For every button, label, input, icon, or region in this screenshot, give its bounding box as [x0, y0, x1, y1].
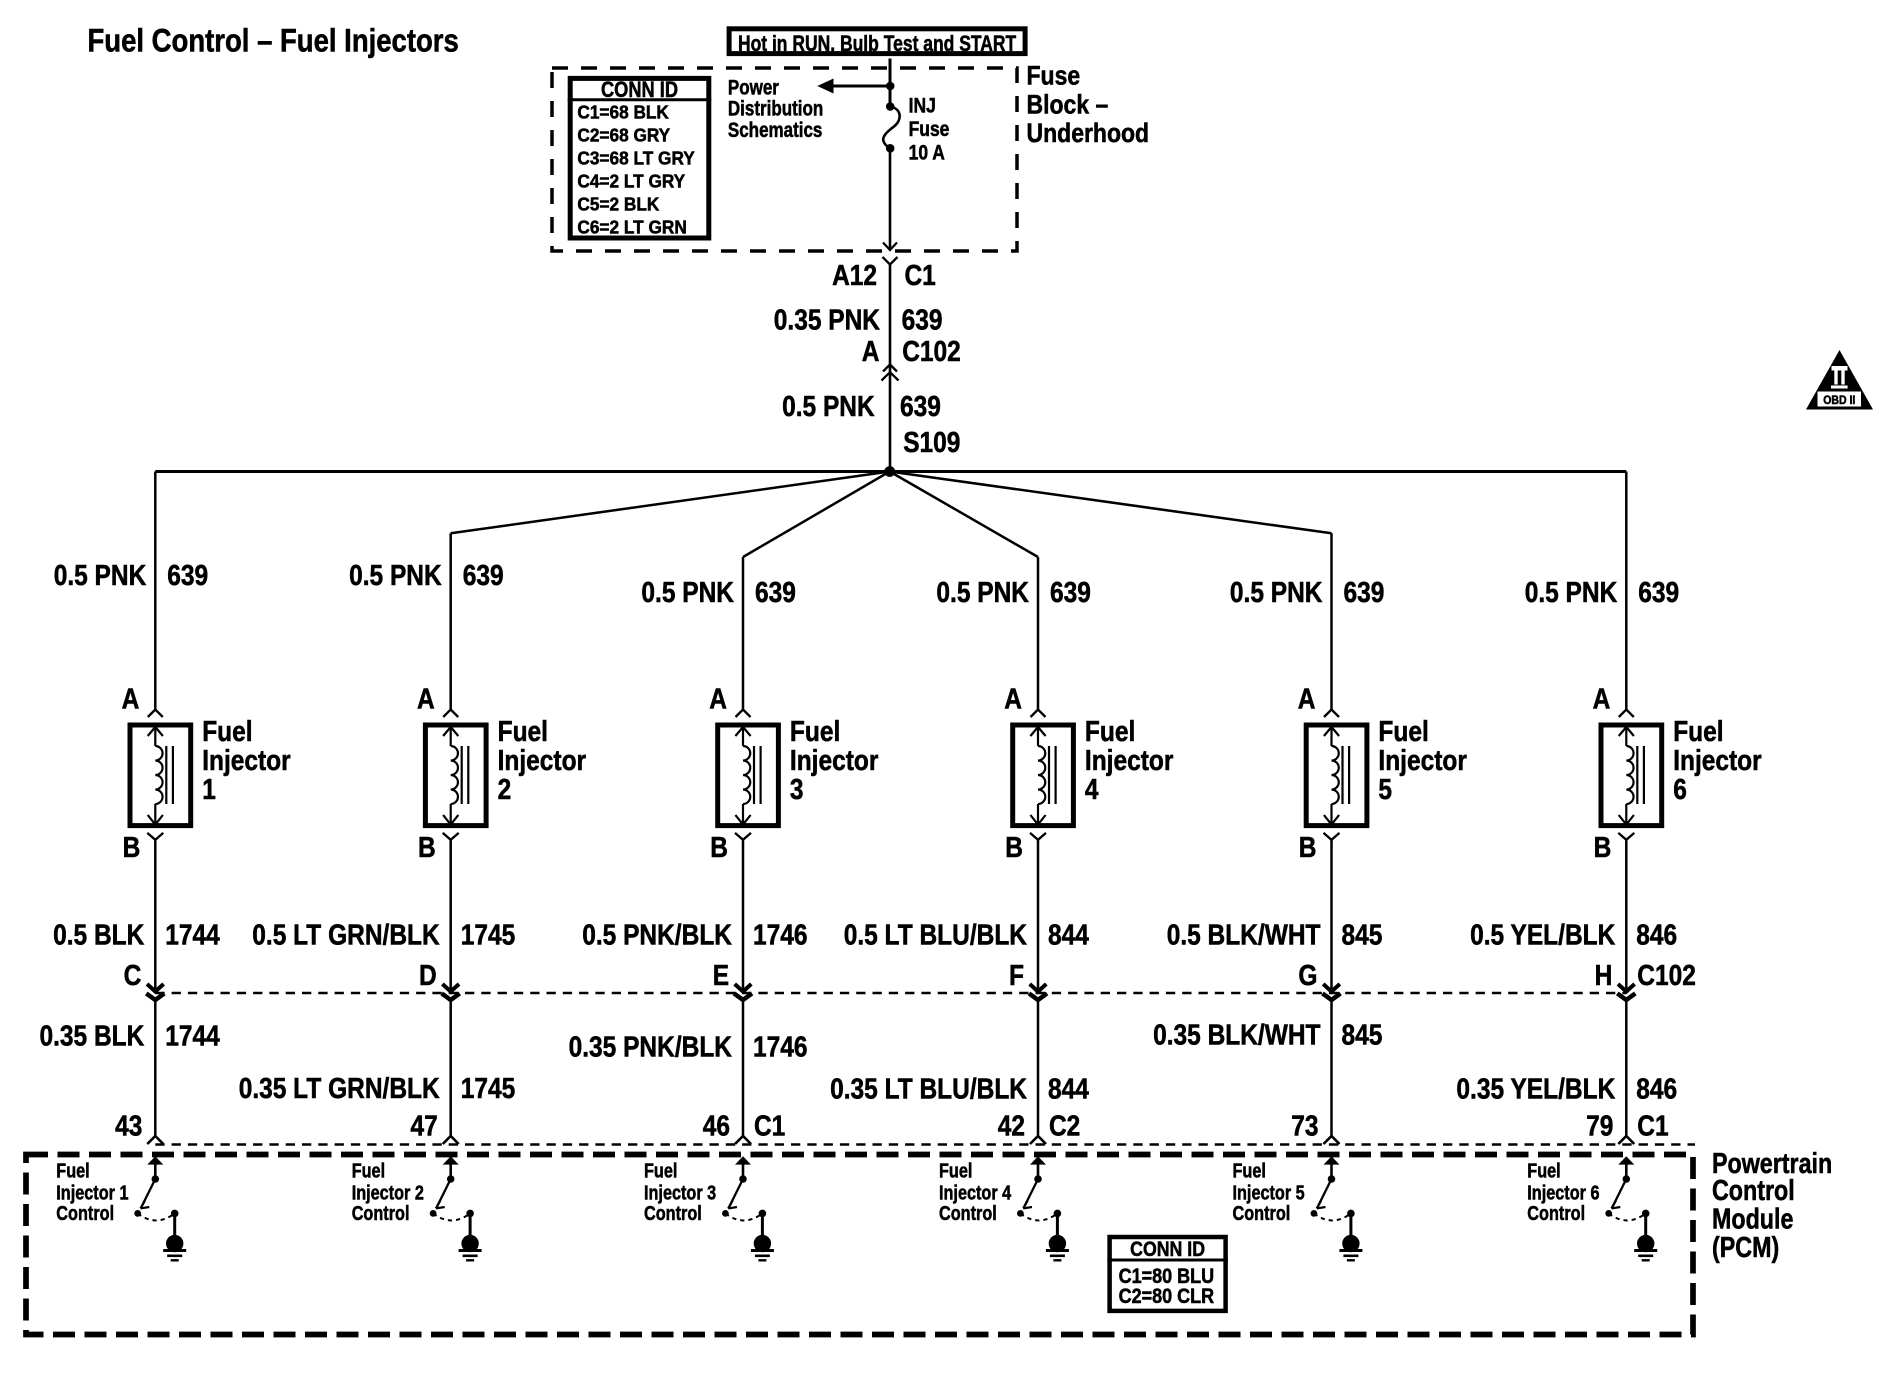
svg-text:G: G: [1298, 960, 1317, 992]
svg-text:E: E: [713, 960, 729, 992]
svg-text:639: 639: [1050, 577, 1091, 609]
svg-text:C: C: [124, 960, 142, 992]
svg-text:C1: C1: [754, 1110, 785, 1142]
svg-text:43: 43: [115, 1110, 142, 1142]
svg-text:0.5 LT BLU/BLK: 0.5 LT BLU/BLK: [844, 920, 1027, 952]
svg-text:CONN ID: CONN ID: [601, 77, 678, 102]
svg-text:Module: Module: [1712, 1203, 1793, 1235]
svg-text:Fuel: Fuel: [1527, 1160, 1560, 1183]
svg-text:639: 639: [463, 560, 504, 592]
svg-text:H: H: [1595, 960, 1613, 992]
svg-text:A: A: [1593, 684, 1611, 716]
svg-text:Control: Control: [56, 1202, 114, 1225]
svg-text:Fuel: Fuel: [56, 1160, 89, 1183]
svg-text:Hot in RUN, Bulb Test and STAR: Hot in RUN, Bulb Test and START: [738, 31, 1016, 56]
svg-text:844: 844: [1048, 920, 1089, 952]
svg-text:0.35 PNK/BLK: 0.35 PNK/BLK: [569, 1031, 732, 1063]
svg-text:1746: 1746: [753, 1031, 808, 1063]
svg-text:C1: C1: [1637, 1110, 1668, 1142]
svg-text:C2: C2: [1049, 1110, 1080, 1142]
svg-text:3: 3: [790, 774, 804, 806]
svg-text:Fuel: Fuel: [498, 716, 548, 748]
svg-text:Control: Control: [939, 1202, 997, 1225]
svg-text:0.5 PNK: 0.5 PNK: [349, 560, 442, 592]
svg-text:Fuse: Fuse: [1027, 61, 1081, 91]
svg-text:Injector: Injector: [1673, 745, 1762, 777]
svg-text:845: 845: [1342, 1020, 1383, 1052]
svg-text:639: 639: [1344, 577, 1385, 609]
svg-text:0.35 LT GRN/BLK: 0.35 LT GRN/BLK: [239, 1073, 440, 1105]
svg-text:Control: Control: [1527, 1202, 1585, 1225]
svg-text:5: 5: [1378, 774, 1392, 806]
svg-text:2: 2: [498, 774, 512, 806]
svg-text:A: A: [122, 684, 140, 716]
svg-text:Fuel: Fuel: [352, 1160, 385, 1183]
svg-text:0.5 LT GRN/BLK: 0.5 LT GRN/BLK: [252, 920, 439, 952]
svg-text:F: F: [1009, 960, 1024, 992]
svg-text:73: 73: [1291, 1110, 1318, 1142]
svg-text:4: 4: [1085, 774, 1099, 806]
svg-text:B: B: [123, 832, 141, 864]
svg-text:(PCM): (PCM): [1712, 1232, 1779, 1264]
svg-text:0.5 PNK: 0.5 PNK: [782, 391, 875, 423]
svg-text:0.5 PNK/BLK: 0.5 PNK/BLK: [582, 920, 732, 952]
svg-text:Fuel Control – Fuel Injectors: Fuel Control – Fuel Injectors: [88, 23, 459, 59]
svg-text:0.35 LT BLU/BLK: 0.35 LT BLU/BLK: [830, 1074, 1027, 1106]
svg-text:844: 844: [1048, 1074, 1089, 1106]
svg-text:0.5 PNK: 0.5 PNK: [1525, 577, 1618, 609]
svg-text:C1: C1: [905, 260, 936, 292]
svg-text:6: 6: [1673, 774, 1687, 806]
svg-text:INJ: INJ: [909, 94, 936, 117]
svg-text:B: B: [1299, 832, 1317, 864]
svg-text:Control: Control: [1712, 1175, 1795, 1207]
svg-text:C5=2 BLK: C5=2 BLK: [577, 194, 660, 215]
svg-text:0.35 PNK: 0.35 PNK: [774, 305, 880, 337]
svg-text:0.35 BLK: 0.35 BLK: [40, 1021, 145, 1053]
svg-text:A: A: [862, 336, 880, 368]
svg-text:C3=68 LT GRY: C3=68 LT GRY: [577, 148, 695, 169]
svg-text:845: 845: [1342, 920, 1383, 952]
svg-text:Injector: Injector: [498, 745, 586, 777]
svg-text:0.5 BLK/WHT: 0.5 BLK/WHT: [1167, 920, 1321, 952]
svg-text:Injector: Injector: [202, 745, 291, 777]
svg-text:Control: Control: [1233, 1202, 1291, 1225]
svg-text:0.5 YEL/BLK: 0.5 YEL/BLK: [1470, 920, 1615, 952]
svg-text:846: 846: [1636, 1073, 1677, 1105]
svg-text:0.5 BLK: 0.5 BLK: [53, 920, 144, 952]
svg-text:A12: A12: [832, 260, 877, 292]
svg-text:A: A: [1004, 684, 1022, 716]
svg-text:0.5 PNK: 0.5 PNK: [1230, 577, 1323, 609]
svg-text:Injector: Injector: [1085, 745, 1174, 777]
svg-text:Control: Control: [644, 1202, 702, 1225]
svg-text:1745: 1745: [461, 1073, 516, 1105]
svg-text:639: 639: [900, 391, 941, 423]
svg-text:Control: Control: [352, 1202, 410, 1225]
svg-text:Block –: Block –: [1027, 90, 1109, 120]
svg-text:B: B: [418, 832, 436, 864]
svg-text:C4=2 LT GRY: C4=2 LT GRY: [577, 171, 685, 192]
svg-text:639: 639: [1638, 577, 1679, 609]
svg-text:B: B: [710, 832, 728, 864]
svg-text:47: 47: [411, 1110, 438, 1142]
svg-text:79: 79: [1586, 1110, 1613, 1142]
svg-text:Fuel: Fuel: [939, 1160, 972, 1183]
svg-text:C1=68 BLK: C1=68 BLK: [577, 102, 669, 123]
svg-text:639: 639: [167, 560, 208, 592]
svg-text:0.35 BLK/WHT: 0.35 BLK/WHT: [1153, 1020, 1321, 1052]
svg-text:A: A: [1298, 684, 1316, 716]
svg-text:CONN ID: CONN ID: [1130, 1237, 1205, 1261]
svg-text:10 A: 10 A: [909, 142, 945, 165]
svg-text:1745: 1745: [461, 920, 516, 952]
svg-text:846: 846: [1636, 920, 1677, 952]
svg-text:Fuel: Fuel: [1233, 1160, 1266, 1183]
svg-text:Injector: Injector: [1378, 745, 1467, 777]
svg-text:C2=80 CLR: C2=80 CLR: [1119, 1284, 1215, 1308]
svg-text:Fuse: Fuse: [909, 118, 950, 141]
svg-text:S109: S109: [903, 427, 960, 459]
svg-text:1746: 1746: [753, 920, 808, 952]
svg-text:Fuel: Fuel: [202, 716, 252, 748]
svg-text:0.5 PNK: 0.5 PNK: [641, 577, 734, 609]
svg-text:Fuel: Fuel: [1085, 716, 1135, 748]
svg-text:Injector: Injector: [790, 745, 879, 777]
svg-text:639: 639: [755, 577, 796, 609]
svg-text:0.5 PNK: 0.5 PNK: [936, 577, 1029, 609]
svg-text:1744: 1744: [165, 1021, 220, 1053]
svg-text:C2=68 GRY: C2=68 GRY: [577, 125, 670, 146]
svg-text:Distribution: Distribution: [728, 98, 823, 121]
svg-text:A: A: [417, 684, 435, 716]
svg-text:46: 46: [703, 1110, 730, 1142]
svg-text:Fuel: Fuel: [790, 716, 840, 748]
svg-text:D: D: [419, 960, 437, 992]
svg-text:B: B: [1005, 832, 1023, 864]
svg-text:A: A: [709, 684, 727, 716]
svg-text:C6=2 LT GRN: C6=2 LT GRN: [577, 217, 686, 238]
svg-text:B: B: [1594, 832, 1612, 864]
svg-text:Fuel: Fuel: [1673, 716, 1723, 748]
svg-text:1744: 1744: [165, 920, 220, 952]
svg-text:Fuel: Fuel: [1378, 716, 1428, 748]
svg-text:0.5 PNK: 0.5 PNK: [54, 560, 147, 592]
svg-text:Power: Power: [728, 77, 779, 100]
svg-text:0.35 YEL/BLK: 0.35 YEL/BLK: [1456, 1073, 1615, 1105]
svg-text:1: 1: [202, 774, 216, 806]
svg-text:C102: C102: [902, 336, 961, 368]
svg-text:Schematics: Schematics: [728, 119, 823, 142]
svg-text:Underhood: Underhood: [1027, 118, 1150, 148]
svg-text:OBD II: OBD II: [1823, 393, 1855, 407]
svg-text:639: 639: [902, 305, 943, 337]
svg-text:Fuel: Fuel: [644, 1160, 677, 1183]
svg-text:42: 42: [998, 1110, 1025, 1142]
svg-text:C102: C102: [1637, 960, 1696, 992]
